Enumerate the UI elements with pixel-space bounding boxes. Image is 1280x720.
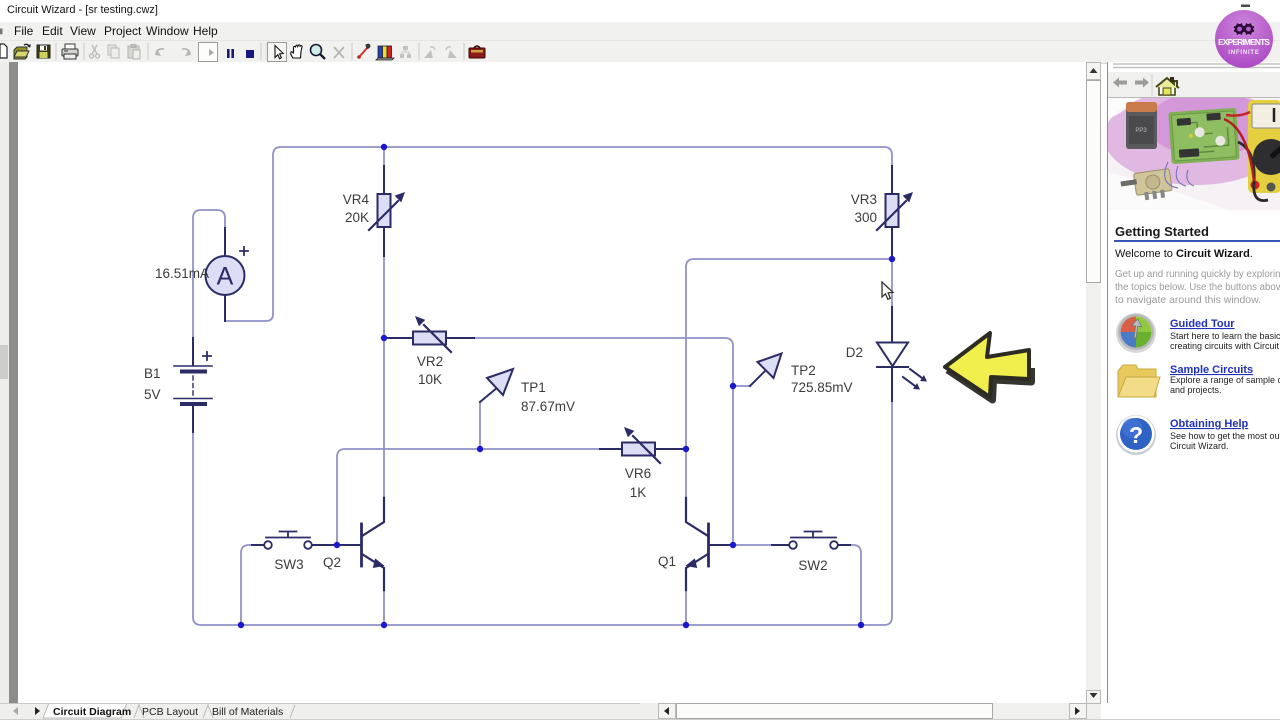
- svg-text:SW2: SW2: [798, 558, 827, 573]
- label VR2 10K: [417, 354, 443, 387]
- wire VR2 node down to Q2 collector: [383, 338, 385, 498]
- toolbox icon: [469, 46, 485, 58]
- switch SW2: [772, 532, 850, 549]
- svg-text:Circuit Wizard.: Circuit Wizard.: [1170, 441, 1229, 451]
- yellow highlight arrow: [935, 325, 1045, 409]
- test point TP2: [750, 354, 782, 387]
- redo icon (disabled): [182, 49, 191, 56]
- svg-text:Circuit Diagram: Circuit Diagram: [53, 706, 131, 718]
- wire SW2 right drop to rail: [850, 545, 861, 625]
- label SW2: [798, 558, 827, 573]
- switch SW3: [252, 532, 334, 549]
- graphs tool: [376, 46, 394, 60]
- rotate left icon (disabled): [424, 47, 435, 58]
- transistor Q1: [685, 498, 733, 590]
- variable resistor VR6: [600, 427, 686, 463]
- label SW3: [274, 557, 303, 572]
- select arrow tool (pressed): [268, 43, 287, 62]
- node VR2 left: [381, 335, 387, 341]
- label VR4 20K: [343, 192, 370, 225]
- svg-text:and projects.: and projects.: [1170, 385, 1222, 395]
- wire ammeter bottom jog up to top rail: [225, 147, 892, 321]
- probe tool: [357, 44, 370, 59]
- wire battery top to ammeter top: [193, 210, 225, 338]
- paste icon (disabled): [128, 45, 140, 60]
- zoom tool: [311, 45, 326, 60]
- node TP2: [730, 383, 736, 389]
- label Q1: [658, 554, 676, 569]
- label TP2 725.85mV: [791, 363, 853, 395]
- label TP1 87.67mV: [521, 380, 575, 414]
- node rail SW3: [238, 622, 244, 628]
- copy icon (disabled): [108, 45, 119, 58]
- node rail Q1 emitter: [683, 622, 689, 628]
- svg-text:D2: D2: [846, 345, 863, 360]
- org tool (disabled): [400, 46, 411, 58]
- node VR6 right: [683, 446, 689, 452]
- print icon: [62, 44, 78, 59]
- mouse cursor: [880, 281, 900, 303]
- svg-text:TP1: TP1: [521, 380, 546, 395]
- wire TP1 node to VR6 left pin: [480, 448, 600, 450]
- wire VR3 bottom node left and down to VR6 right node: [686, 259, 892, 498]
- variable resistor VR3: [877, 166, 913, 259]
- hand tool: [291, 45, 302, 58]
- rotate right icon (disabled): [446, 47, 457, 58]
- svg-text:725.85mV: 725.85mV: [791, 380, 853, 395]
- label VR6 1K: [625, 466, 651, 500]
- svg-text:Bill of Materials: Bill of Materials: [212, 706, 283, 718]
- svg-text:TP2: TP2: [791, 363, 816, 378]
- svg-text:Q1: Q1: [658, 554, 676, 569]
- node top rail / VR4: [381, 144, 387, 150]
- svg-text:to navigate around this window: to navigate around this window.: [1115, 295, 1261, 306]
- svg-text:16.51mA: 16.51mA: [155, 266, 209, 281]
- test point TP1: [480, 369, 513, 402]
- svg-text:creating circuits with Circuit: creating circuits with Circuit Wiz: [1170, 341, 1280, 351]
- stop button: [246, 50, 254, 58]
- svg-text:A: A: [217, 263, 234, 291]
- svg-text:Explore a range of sample circ: Explore a range of sample circu: [1170, 375, 1280, 385]
- svg-text:VR3: VR3: [851, 192, 877, 207]
- wire Q1 base node to SW2 left: [733, 544, 772, 546]
- wire VR4 bottom to VR2 node: [383, 256, 385, 338]
- node rail Q2 emitter: [381, 622, 387, 628]
- svg-text:VR2: VR2: [417, 354, 443, 369]
- channel logo badge: [1212, 2, 1276, 70]
- svg-text:PP3: PP3: [1135, 128, 1147, 134]
- wire TP2 stub: [733, 385, 750, 387]
- node rail SW2: [858, 622, 864, 628]
- battery B1: [174, 338, 212, 432]
- svg-text:10K: 10K: [418, 372, 442, 387]
- svg-text:Get up and running quickly by: Get up and running quickly by exploring: [1115, 269, 1280, 280]
- svg-text:INFINITE: INFINITE: [1228, 50, 1259, 56]
- svg-text:See how to get the most out o: See how to get the most out o: [1170, 431, 1280, 441]
- label D2: [846, 345, 863, 360]
- node TP1: [477, 446, 483, 452]
- wire middle rail TP1 node to Q2 base: [337, 449, 480, 545]
- open folder icon: [14, 44, 31, 59]
- label VR3 300: [851, 192, 877, 225]
- wire VR2 right to Q1 base column: [474, 338, 733, 545]
- wire TP1 stub up: [479, 402, 481, 449]
- svg-text:?: ?: [1129, 422, 1143, 448]
- variable resistor VR2: [387, 316, 474, 352]
- svg-text:VR6: VR6: [625, 466, 651, 481]
- svg-text:B1: B1: [144, 366, 161, 381]
- new file icon: [0, 44, 7, 58]
- label Q2: [323, 555, 341, 570]
- wire Q2 emitter to rail: [383, 590, 385, 625]
- save icon: [37, 45, 50, 58]
- svg-text:Welcome to Circuit Wizard.: Welcome to Circuit Wizard.: [1115, 248, 1253, 260]
- svg-text:300: 300: [854, 210, 877, 225]
- svg-text:Guided Tour: Guided Tour: [1170, 318, 1235, 330]
- pause button: [227, 49, 234, 58]
- svg-text:Obtaining Help: Obtaining Help: [1170, 418, 1249, 430]
- svg-text:EXPERIMENTS: EXPERIMENTS: [1218, 37, 1270, 47]
- delete tool (disabled): [334, 47, 344, 58]
- svg-text:87.67mV: 87.67mV: [521, 399, 575, 414]
- ammeter M1: [206, 228, 249, 321]
- play button (sunken): [199, 43, 218, 62]
- wire D2 anode stub from VR3 node: [891, 259, 893, 307]
- undo icon (disabled): [155, 49, 164, 56]
- svg-text:SW3: SW3: [274, 557, 303, 572]
- svg-text:Getting Started: Getting Started: [1115, 224, 1209, 239]
- label 16.51mA: [155, 266, 209, 281]
- wire VR4 top stub: [383, 148, 385, 166]
- svg-text:20K: 20K: [345, 210, 369, 225]
- node Q2 base: [334, 542, 340, 548]
- cut icon (disabled): [90, 45, 100, 58]
- label B1 5V: [144, 366, 161, 402]
- svg-text:Start here to learn the basics: Start here to learn the basics o: [1170, 331, 1280, 341]
- svg-text:VR4: VR4: [343, 192, 370, 207]
- wire bottom rail with battery and D2 risers: [193, 401, 892, 625]
- svg-text:1K: 1K: [630, 485, 647, 500]
- node Q1 base: [730, 542, 736, 548]
- wire SW3 left drop to rail: [241, 545, 252, 625]
- LED D2: [877, 307, 927, 401]
- variable resistor VR4: [369, 166, 405, 256]
- transistor Q2: [337, 498, 385, 590]
- svg-text:Q2: Q2: [323, 555, 341, 570]
- wire Q1 emitter to rail: [685, 590, 687, 625]
- node VR3 bottom: [889, 256, 895, 262]
- svg-text:the topics below. Use the butt: the topics below. Use the buttons above: [1115, 282, 1280, 293]
- svg-text:PCB Layout: PCB Layout: [142, 706, 198, 718]
- svg-text:5V: 5V: [144, 387, 161, 402]
